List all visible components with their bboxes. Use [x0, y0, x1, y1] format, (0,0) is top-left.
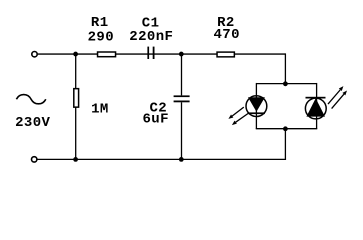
wire 1M branch vertical	[75, 54, 77, 159]
wire drop from bridge to bottom rail	[284, 129, 286, 160]
wire top rail	[38, 53, 286, 55]
wire bridge bottom	[256, 128, 318, 130]
AC source symbol	[16, 95, 45, 104]
svg-text:290: 290	[88, 29, 114, 45]
wire bridge top	[256, 83, 317, 85]
LED left emission arrows	[228, 107, 248, 125]
svg-text:6uF: 6uF	[143, 111, 169, 127]
junction bottom rail / 1M branch	[73, 157, 78, 162]
svg-text:220nF: 220nF	[129, 29, 173, 45]
wire bridge right vertical	[316, 83, 318, 129]
wire right vertical from R2 to bridge	[284, 53, 286, 83]
junction bridge top	[283, 81, 288, 86]
terminal bottom	[32, 157, 37, 162]
LED right (up-pointing, circled)	[305, 97, 326, 119]
wire bridge left vertical	[255, 83, 257, 129]
junction bridge bottom	[283, 126, 288, 131]
wire bottom rail	[38, 158, 287, 160]
svg-text:470: 470	[214, 27, 240, 43]
junction top rail / 1M branch	[73, 52, 78, 57]
terminal top	[32, 52, 37, 57]
capacitor C1	[147, 47, 154, 59]
junction top rail / C2 branch	[179, 52, 184, 57]
LED left (down-pointing, circled)	[246, 96, 267, 117]
resistor 1M	[74, 89, 79, 108]
wire C2 branch vertical bottom	[181, 102, 183, 159]
resistor R1	[98, 52, 116, 57]
svg-text:230V: 230V	[15, 115, 50, 131]
svg-text:1M: 1M	[91, 102, 109, 118]
LED right emission arrows	[328, 86, 347, 109]
capacitor C2	[174, 95, 190, 102]
resistor R2	[217, 52, 234, 57]
junction bottom rail / C2 branch	[179, 157, 184, 162]
wire C2 branch vertical top	[181, 54, 183, 95]
